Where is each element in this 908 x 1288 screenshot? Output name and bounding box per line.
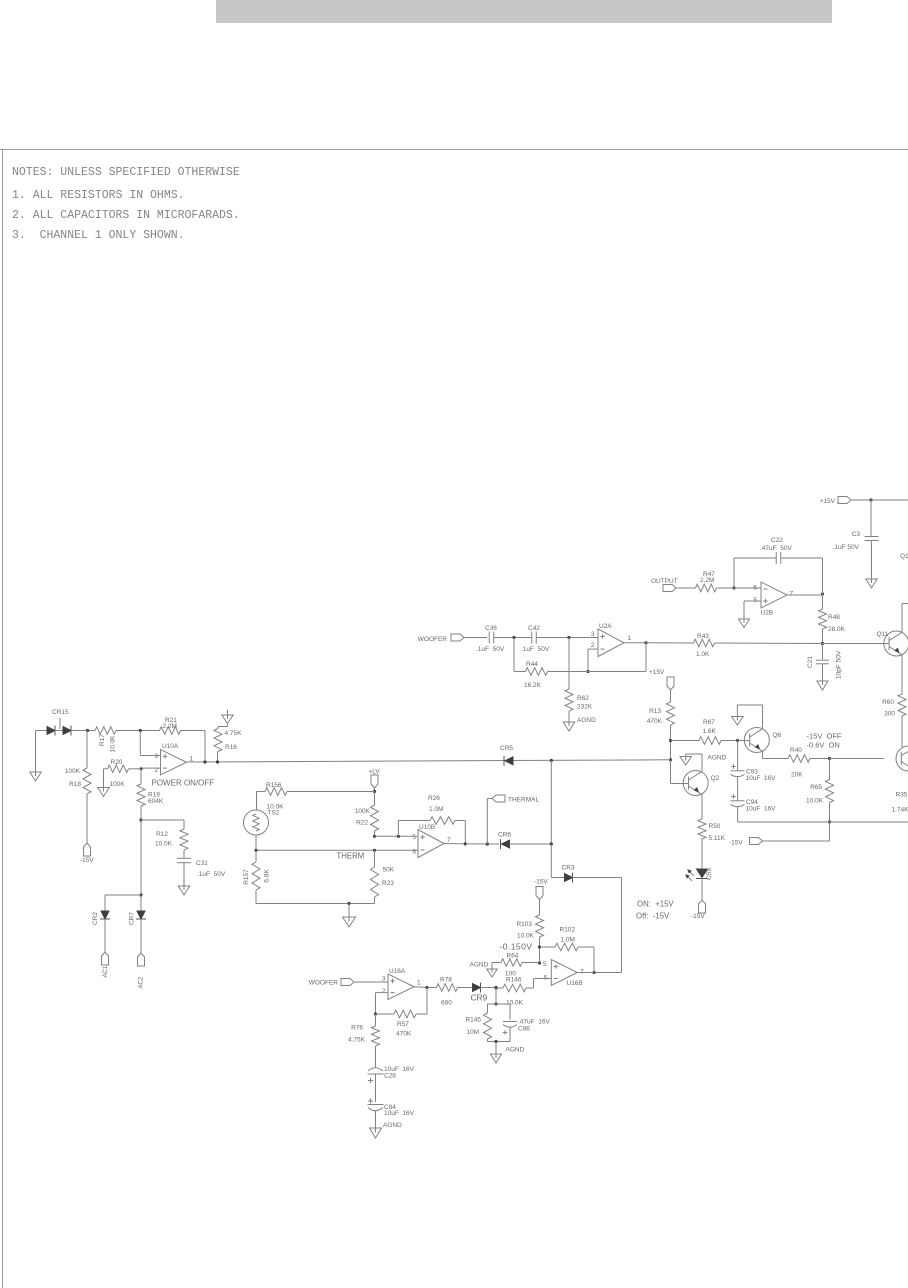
svg-text:R18: R18 [69, 781, 81, 788]
svg-text:Q2: Q2 [711, 775, 720, 782]
svg-text:R60: R60 [882, 699, 894, 706]
svg-text:1: 1 [417, 980, 421, 987]
svg-text:7: 7 [790, 591, 794, 598]
svg-text:2. ALL CAPACITORS IN MICROFARA: 2. ALL CAPACITORS IN MICROFARADS. [12, 209, 240, 222]
svg-text:4.75K: 4.75K [225, 730, 243, 737]
svg-text:CR7: CR7 [129, 912, 136, 925]
svg-text:16.2K: 16.2K [524, 682, 542, 689]
svg-text:2.2M: 2.2M [700, 577, 714, 584]
svg-text:20K: 20K [791, 772, 803, 779]
svg-text:R102: R102 [560, 927, 576, 934]
svg-text:6: 6 [753, 585, 757, 592]
svg-text:10.0K: 10.0K [110, 735, 117, 753]
svg-text:10pF 50V: 10pF 50V [836, 650, 843, 679]
svg-text:3: 3 [382, 976, 386, 983]
svg-text:AC2: AC2 [139, 976, 145, 988]
svg-text:Q1: Q1 [900, 553, 908, 560]
svg-text:AGND: AGND [470, 962, 489, 969]
svg-text:U10A: U10A [162, 743, 179, 750]
svg-text:.1uF 50V: .1uF 50V [476, 646, 505, 653]
svg-text:-0.150V: -0.150V [500, 942, 533, 952]
svg-text:3: 3 [591, 631, 595, 638]
svg-text:5.11K: 5.11K [709, 835, 726, 842]
svg-text:TS2: TS2 [268, 810, 280, 817]
svg-text:1.0K: 1.0K [696, 651, 710, 658]
svg-text:U16A: U16A [389, 968, 406, 975]
svg-text:6.8K: 6.8K [264, 869, 271, 883]
svg-text:NOTES: UNLESS SPECIFIED OTHERW: NOTES: UNLESS SPECIFIED OTHERWISE [12, 166, 240, 179]
svg-text:R20: R20 [111, 759, 123, 766]
svg-text:R23: R23 [382, 880, 394, 887]
svg-text:-15V: -15V [80, 857, 94, 864]
svg-text:4.75K: 4.75K [348, 1037, 366, 1044]
svg-text:R12: R12 [156, 831, 168, 838]
svg-text:AGND: AGND [708, 755, 727, 762]
svg-text:100K: 100K [65, 768, 81, 775]
svg-text:CR8: CR8 [707, 867, 713, 880]
svg-text:R65: R65 [810, 784, 822, 791]
svg-text:.47uF 50V: .47uF 50V [760, 545, 792, 552]
svg-text:10.0K: 10.0K [517, 933, 535, 940]
svg-text:CR5: CR5 [500, 745, 513, 752]
svg-text:3. CHANNEL 1 ONLY SHOWN.: 3. CHANNEL 1 ONLY SHOWN. [12, 229, 185, 242]
svg-text:10uF 16V: 10uF 16V [746, 775, 777, 782]
svg-text:300: 300 [884, 711, 895, 718]
svg-text:C86: C86 [518, 1026, 530, 1033]
svg-text:U16B: U16B [567, 980, 583, 987]
svg-text:R67: R67 [703, 719, 715, 726]
svg-text:.1uF 50V: .1uF 50V [833, 544, 860, 551]
svg-text:-15V: -15V [534, 879, 548, 886]
svg-text:+LV: +LV [369, 769, 381, 776]
svg-text:1. ALL RESISTORS IN OHMS.: 1. ALL RESISTORS IN OHMS. [12, 189, 185, 202]
svg-text:+15V: +15V [649, 669, 665, 676]
svg-text:-15V: -15V [729, 840, 743, 847]
svg-text:R156: R156 [266, 782, 282, 789]
svg-text:R44: R44 [526, 661, 538, 668]
svg-text:1: 1 [190, 756, 194, 763]
svg-text:CR15: CR15 [52, 709, 69, 716]
svg-text:C42: C42 [528, 625, 540, 632]
svg-text:R13: R13 [649, 708, 661, 715]
svg-text:2: 2 [382, 988, 386, 995]
svg-text:5: 5 [412, 834, 416, 841]
svg-text:CR9: CR9 [471, 993, 488, 1003]
svg-text:R17: R17 [99, 734, 106, 746]
svg-text:R35: R35 [896, 792, 908, 799]
svg-text:3: 3 [154, 753, 158, 760]
svg-text:680: 680 [441, 1000, 452, 1007]
svg-text:-15V OFF: -15V OFF [807, 732, 842, 741]
svg-text:R64: R64 [507, 953, 519, 960]
svg-text:.47uF 16V: .47uF 16V [518, 1019, 550, 1026]
svg-text:R48: R48 [828, 614, 840, 621]
svg-text:-15V: -15V [691, 913, 705, 920]
svg-text:10uF 16V: 10uF 16V [746, 806, 777, 813]
svg-text:1.0M: 1.0M [561, 937, 575, 944]
svg-text:AC1: AC1 [103, 965, 109, 977]
svg-text:AGND: AGND [383, 1122, 402, 1129]
svg-text:R157: R157 [243, 869, 250, 885]
svg-text:604K: 604K [148, 798, 164, 805]
svg-text:AGND: AGND [506, 1047, 525, 1054]
svg-text:232K: 232K [577, 704, 593, 711]
svg-text:1: 1 [628, 635, 632, 642]
svg-text:U2A: U2A [599, 623, 612, 630]
svg-text:WOOFER: WOOFER [309, 980, 339, 987]
svg-text:THERMAL: THERMAL [508, 797, 539, 804]
svg-text:R62: R62 [577, 695, 589, 702]
svg-text:C36: C36 [485, 625, 497, 632]
svg-text:28.0K: 28.0K [828, 626, 846, 633]
svg-text:C22: C22 [771, 537, 783, 544]
svg-text:R146: R146 [506, 977, 522, 984]
svg-text:Q6: Q6 [773, 732, 782, 739]
svg-text:-0.6V ON: -0.6V ON [807, 741, 840, 750]
svg-text:470K: 470K [647, 718, 663, 725]
svg-text:U2B: U2B [761, 610, 774, 617]
svg-text:50K: 50K [383, 867, 395, 874]
svg-text:R50: R50 [709, 823, 721, 830]
svg-text:100K: 100K [110, 781, 126, 788]
svg-text:10.0K: 10.0K [506, 1000, 524, 1007]
svg-text:10uF 16V: 10uF 16V [384, 1110, 415, 1117]
svg-text:CR3: CR3 [562, 865, 575, 872]
svg-text:1.74K: 1.74K [892, 807, 908, 814]
svg-text:R57: R57 [397, 1021, 409, 1028]
svg-text:7: 7 [447, 837, 451, 844]
svg-text:R76: R76 [351, 1025, 363, 1032]
svg-text:R103: R103 [516, 921, 532, 928]
svg-text:+15V: +15V [820, 498, 836, 505]
svg-text:R145: R145 [465, 1017, 481, 1024]
svg-text:R43: R43 [697, 633, 709, 640]
svg-text:6: 6 [412, 849, 416, 856]
svg-text:AGND: AGND [577, 717, 596, 724]
svg-text:.1uF 50V: .1uF 50V [521, 646, 550, 653]
svg-text:U10B: U10B [419, 824, 435, 831]
svg-text:OUTPUT: OUTPUT [651, 578, 678, 585]
svg-text:ON: +15V: ON: +15V [637, 900, 674, 909]
svg-text:Off: -15V: Off: -15V [636, 912, 670, 921]
svg-text:R40: R40 [790, 747, 802, 754]
svg-text:CR2: CR2 [92, 912, 99, 925]
svg-text:10.0K: 10.0K [806, 798, 824, 805]
svg-text:5: 5 [543, 961, 547, 968]
svg-text:R22: R22 [356, 820, 368, 827]
svg-text:Q11: Q11 [877, 631, 889, 638]
svg-text:10M: 10M [466, 1029, 479, 1036]
svg-text:C21: C21 [807, 656, 814, 668]
svg-text:CR6: CR6 [498, 832, 511, 839]
svg-text:POWER ON/OFF: POWER ON/OFF [152, 779, 215, 788]
svg-text:R26: R26 [428, 795, 440, 802]
svg-text:THERM: THERM [337, 852, 365, 861]
svg-text:C31: C31 [196, 860, 208, 867]
svg-text:C28: C28 [384, 1073, 396, 1080]
svg-text:1.0M: 1.0M [429, 806, 443, 813]
svg-text:2.2M: 2.2M [163, 723, 177, 730]
svg-text:R78: R78 [440, 977, 452, 984]
svg-text:470K: 470K [396, 1031, 412, 1038]
svg-text:R16: R16 [225, 744, 237, 751]
svg-text:.1uF 50V: .1uF 50V [197, 871, 226, 878]
svg-text:10.0K: 10.0K [155, 841, 173, 848]
svg-text:1.6K: 1.6K [703, 728, 717, 735]
svg-text:2: 2 [591, 642, 595, 649]
svg-text:C3: C3 [852, 531, 861, 538]
svg-text:WOOFER: WOOFER [418, 636, 448, 643]
svg-text:100K: 100K [355, 808, 371, 815]
